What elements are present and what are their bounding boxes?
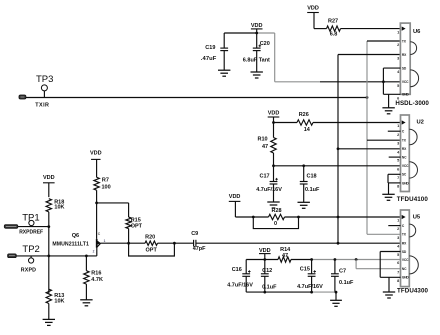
wire (U5 pin7)	[355, 260, 357, 269]
junction (R13 top)	[47, 255, 50, 258]
svg-text:R27: R27	[328, 19, 338, 25]
svg-text:VDD: VDD	[251, 23, 263, 29]
wire (collector)	[96, 203, 98, 239]
junction (RXD/R28)	[337, 216, 340, 219]
wire R20 bypass loop	[129, 243, 175, 256]
junction (R15 bottom)	[127, 242, 130, 245]
resistor R15	[128, 203, 130, 217]
svg-text:TXIR: TXIR	[35, 102, 49, 108]
wire	[48, 227, 50, 256]
IC U6 body	[400, 23, 410, 94]
wire (U6 pin3)	[338, 54, 400, 56]
svg-text:1: 1	[397, 219, 399, 223]
svg-text:7: 7	[397, 270, 399, 274]
junction (RXD bus to main wire)	[337, 242, 340, 245]
svg-text:C19: C19	[205, 45, 215, 51]
capacitor C15	[311, 260, 313, 274]
svg-text:VDD: VDD	[43, 175, 55, 181]
svg-text:TFDU4300: TFDU4300	[397, 288, 429, 295]
ground (U2)	[388, 183, 390, 194]
junction (C12 bottom)	[263, 291, 266, 294]
svg-text:RXPDREF: RXPDREF	[19, 230, 43, 236]
U2 pin2 stub	[388, 130, 401, 132]
wire (U6 pin2)	[367, 40, 400, 42]
wire RXD bus (vertical)	[337, 55, 339, 244]
IC U5 body	[401, 210, 410, 287]
ground (C18)	[298, 201, 310, 203]
U5 pin2 stub	[388, 225, 400, 227]
svg-text:VCC: VCC	[402, 258, 409, 262]
svg-text:U6: U6	[413, 29, 421, 35]
resistor R28	[269, 214, 285, 219]
svg-text:3: 3	[397, 57, 399, 61]
junction (TXIR to TXD bus)	[366, 96, 369, 99]
svg-text:2: 2	[397, 43, 399, 47]
svg-text:R20: R20	[145, 235, 155, 241]
svg-text:3: 3	[397, 236, 399, 240]
svg-text:1: 1	[104, 239, 106, 243]
svg-text:6: 6	[397, 261, 399, 265]
wire R28 bypass loop	[253, 217, 298, 229]
svg-text:4.7K: 4.7K	[91, 277, 103, 283]
junction (VDD/C12)	[263, 258, 266, 261]
svg-text:C17: C17	[260, 174, 270, 180]
svg-text:5: 5	[397, 84, 399, 88]
junction (C17 top)	[272, 164, 275, 167]
wire TXD bus (vertical)	[366, 41, 368, 234]
svg-text:C20: C20	[260, 41, 270, 47]
svg-text:VDD: VDD	[307, 6, 319, 12]
ground (C19)	[218, 69, 230, 71]
connector RXPDREF	[4, 225, 18, 229]
U6 pin1 anode mark	[402, 27, 406, 31]
capacitor C16	[245, 260, 247, 274]
svg-text:U2: U2	[417, 119, 424, 125]
wire (U5 pin3)	[367, 233, 401, 235]
wire	[158, 242, 194, 244]
svg-text:VDD: VDD	[90, 150, 102, 156]
wire	[235, 216, 268, 218]
resistor R26	[297, 120, 313, 125]
junction (C15 top)	[310, 258, 313, 261]
svg-text:GND: GND	[402, 181, 410, 185]
svg-text:R16: R16	[91, 271, 101, 277]
svg-text:0.1uF: 0.1uF	[339, 280, 354, 286]
U5 SD/GND bracket wires	[380, 251, 400, 253]
svg-text:2: 2	[397, 133, 399, 137]
resistor R16	[85, 256, 87, 271]
svg-text:1: 1	[397, 31, 399, 35]
wire	[258, 32, 275, 34]
wire	[274, 122, 298, 124]
svg-text:7: 7	[397, 176, 399, 180]
wire	[314, 28, 327, 30]
svg-text:TP2: TP2	[22, 244, 39, 255]
svg-text:4.7uF/16V: 4.7uF/16V	[227, 283, 253, 289]
IC U5 lens arcs	[409, 224, 415, 237]
test point TP2	[29, 258, 34, 263]
test point TP1	[29, 220, 34, 225]
svg-text:5: 5	[397, 159, 399, 163]
U2 pin5 stub	[389, 156, 401, 158]
svg-text:TFDU4100: TFDU4100	[397, 196, 429, 203]
svg-text:8: 8	[397, 279, 399, 283]
svg-text:47pF: 47pF	[193, 246, 206, 252]
junction C20 top	[255, 32, 258, 35]
connector RXPD	[8, 254, 17, 258]
resistor R27	[327, 26, 341, 31]
IC U6 lens arcs	[410, 42, 416, 55]
svg-text:4.7uF/16V: 4.7uF/16V	[256, 187, 282, 193]
svg-text:4.7uF/16V: 4.7uF/16V	[297, 284, 323, 290]
svg-text:0.1uF: 0.1uF	[262, 284, 277, 290]
capacitor C20	[256, 33, 258, 48]
svg-text:TP3: TP3	[36, 74, 53, 85]
capacitor C7	[334, 260, 336, 274]
svg-text:0.1uF: 0.1uF	[305, 187, 320, 193]
junction (R10 top)	[272, 121, 275, 124]
svg-text:2: 2	[93, 249, 95, 253]
ground (R13)	[43, 318, 55, 320]
capacitor C17	[273, 166, 275, 182]
ground (U6)	[388, 94, 390, 108]
junction (R16 top)	[85, 255, 88, 258]
IC U2 lens arcs	[409, 129, 417, 145]
svg-text:3: 3	[397, 142, 399, 146]
svg-text:R10: R10	[258, 137, 268, 143]
capacitor C19	[223, 33, 225, 48]
wire (U2 pin3)	[367, 139, 401, 141]
svg-text:HSDL-3000: HSDL-3000	[395, 100, 429, 107]
junction (C18 top)	[302, 164, 305, 167]
ground (R16)	[80, 299, 92, 301]
svg-text:VCC: VCC	[402, 80, 409, 84]
connector TXIR	[19, 95, 26, 99]
svg-text:GND: GND	[402, 276, 410, 280]
ground (caps row)	[335, 291, 338, 294]
wire (VDD to U6 pin5)	[274, 33, 276, 82]
svg-text:47: 47	[262, 144, 268, 150]
svg-text:10K: 10K	[54, 204, 64, 210]
wire (collector to R15)	[97, 202, 129, 204]
svg-text:VCC: VCC	[402, 164, 409, 168]
svg-text:0: 0	[274, 221, 277, 227]
svg-text:100: 100	[102, 184, 111, 190]
ground (C17)	[267, 201, 279, 203]
junction (R15 tap)	[95, 202, 98, 205]
resistor R20	[145, 241, 158, 245]
svg-text:R26: R26	[299, 112, 309, 118]
wire (caps bottom bus)	[246, 291, 311, 293]
svg-text:C9: C9	[191, 231, 198, 237]
svg-text:6.8uF Tant: 6.8uF Tant	[243, 58, 270, 64]
junction (R28 bypass left)	[252, 216, 255, 219]
capacitor C18	[303, 166, 305, 182]
svg-text:8: 8	[397, 185, 399, 189]
wire (to U5 pin6)	[291, 259, 312, 261]
svg-text:C18: C18	[307, 174, 317, 180]
svg-text:6.8: 6.8	[330, 32, 338, 38]
ground (U5)	[388, 277, 390, 292]
svg-text:Q6: Q6	[72, 233, 79, 239]
capacitor C12	[264, 260, 266, 274]
wire main RXD (Q6 to R20)	[101, 242, 146, 244]
svg-text:GND: GND	[402, 93, 410, 97]
svg-text:14: 14	[304, 127, 311, 133]
junction (U5 pin7 branch)	[355, 258, 358, 261]
junction (RXD/U2 pin4)	[337, 147, 340, 150]
wire (to U5 pin1)	[285, 216, 401, 218]
svg-text:1: 1	[397, 124, 399, 128]
svg-text:VDD: VDD	[259, 248, 271, 254]
svg-text:C16: C16	[232, 267, 242, 273]
svg-text:C15: C15	[300, 267, 310, 273]
U5 pin1 anode mark	[402, 215, 406, 219]
svg-text:R7: R7	[102, 178, 109, 184]
IC U2 body	[401, 115, 410, 192]
svg-text:VDD: VDD	[229, 194, 241, 200]
test point TP3	[41, 85, 47, 91]
resistor R10	[273, 123, 275, 138]
svg-text:C7: C7	[339, 268, 346, 274]
junction (R20 right)	[173, 242, 176, 245]
svg-text:MMUN2111LT1: MMUN2111LT1	[52, 241, 89, 247]
svg-text:47: 47	[282, 253, 288, 259]
wire	[341, 28, 401, 30]
resistor R14	[278, 257, 291, 262]
U2 pin1 anode mark	[402, 120, 406, 124]
svg-text:2: 2	[397, 227, 399, 231]
junction (R18 bottom)	[47, 225, 50, 228]
U2 SC/GND bracket wires	[388, 173, 401, 175]
svg-text:10K: 10K	[54, 299, 64, 305]
svg-text:5: 5	[397, 253, 399, 257]
wire	[224, 32, 258, 34]
junction (C7 top)	[334, 258, 337, 261]
svg-text:C12: C12	[262, 268, 272, 274]
svg-text:TP1: TP1	[22, 213, 39, 224]
svg-text:6: 6	[397, 167, 399, 171]
svg-text:VDD: VDD	[268, 111, 280, 117]
wire (to U2 pin1)	[313, 122, 401, 124]
wire (C9 to U5 pin4)	[196, 242, 401, 244]
resistor R13	[48, 256, 50, 293]
wire (U2 pin4)	[338, 148, 401, 150]
junction (R28 bypass right)	[297, 216, 300, 219]
svg-text:R28: R28	[272, 208, 282, 214]
wire (caps rail)	[246, 259, 278, 261]
U6 SD/GND bracket wires	[383, 67, 400, 69]
capacitor C9	[193, 240, 195, 247]
ground (C20)	[251, 71, 263, 73]
wire VCC net (to U2 pin6)	[274, 165, 401, 167]
svg-text:R14: R14	[280, 247, 291, 253]
junction (C15 bottom)	[310, 291, 313, 294]
wire TXIR net	[26, 97, 367, 99]
svg-text:RXPD: RXPD	[21, 268, 37, 274]
resistor R18	[46, 199, 51, 212]
svg-text:.47uF: .47uF	[201, 56, 217, 62]
wire RXPD net	[16, 255, 96, 257]
resistor R7	[94, 177, 99, 190]
svg-text:R15: R15	[131, 217, 141, 223]
svg-text:U5: U5	[413, 214, 421, 220]
svg-text:OPT: OPT	[146, 247, 158, 253]
wire RXPDREF net	[18, 226, 49, 228]
svg-text:OPT: OPT	[131, 224, 143, 230]
